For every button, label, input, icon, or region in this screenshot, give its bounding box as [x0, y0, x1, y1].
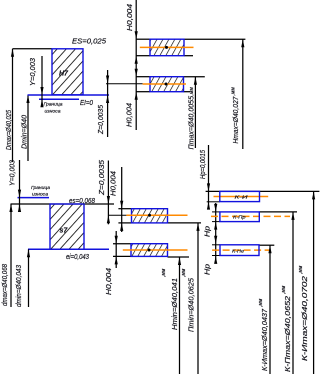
svg-text:Нр=0,0015: Нр=0,0015 — [200, 150, 207, 179]
svg-text:,мм: ,мм — [231, 87, 237, 96]
svg-text:Пmin=Ø40,0625: Пmin=Ø40,0625 — [189, 278, 196, 332]
svg-text:Нр: Нр — [205, 264, 212, 275]
svg-text:Н0,004: Н0,004 — [111, 171, 118, 196]
svg-text:Y=0,003: Y=0,003 — [30, 58, 37, 86]
svg-text:Пmax=Ø40,0055: Пmax=Ø40,0055 — [189, 96, 196, 150]
svg-text:Граница: Граница — [31, 185, 50, 191]
svg-text:К-Не: К-Не — [232, 249, 244, 255]
svg-text:Н0,004: Н0,004 — [106, 268, 113, 295]
svg-text:К-Иmax=Ø40,0702: К-Иmax=Ø40,0702 — [302, 276, 309, 361]
svg-text:Нmin=Ø40,041: Нmin=Ø40,041 — [172, 278, 179, 330]
svg-text:Dmin=Ø40: Dmin=Ø40 — [22, 115, 29, 149]
svg-text:Нmax=Ø40,027: Нmax=Ø40,027 — [233, 96, 240, 144]
svg-text:К-И: К-И — [235, 194, 249, 200]
svg-text:Н7: Н7 — [59, 71, 69, 78]
svg-text:dmax=Ø40,068: dmax=Ø40,068 — [2, 264, 9, 306]
svg-text:s7: s7 — [60, 228, 69, 235]
svg-text:ES=0,025: ES=0,025 — [72, 39, 106, 46]
svg-text:К-Пр: К-Пр — [233, 215, 246, 221]
svg-text:,мм: ,мм — [298, 265, 304, 274]
svg-text:Z=0,0035: Z=0,0035 — [98, 105, 105, 135]
svg-text:износа: износа — [45, 110, 61, 115]
svg-text:EI=0: EI=0 — [80, 100, 93, 107]
svg-text:,мм: ,мм — [258, 298, 264, 307]
svg-text:Н0,004: Н0,004 — [127, 103, 134, 127]
svg-text:К-Иmax=Ø40,0437: К-Иmax=Ø40,0437 — [262, 308, 269, 371]
svg-text:К-Пmax=Ø40,0652: К-Пmax=Ø40,0652 — [285, 296, 292, 372]
svg-text:Граница: Граница — [44, 101, 63, 107]
svg-text:,мм: ,мм — [181, 268, 187, 277]
svg-text:,мм: ,мм — [161, 268, 167, 277]
svg-text:износа: износа — [32, 193, 48, 198]
svg-text:dmin=Ø40,043: dmin=Ø40,043 — [16, 265, 23, 307]
svg-text:Н0,004: Н0,004 — [127, 4, 134, 31]
svg-text:Dmax=Ø40,025: Dmax=Ø40,025 — [6, 110, 13, 150]
svg-text:Z=0,0035: Z=0,0035 — [99, 160, 106, 196]
svg-text:,мм: ,мм — [281, 285, 287, 294]
svg-text:,мм: ,мм — [189, 87, 195, 96]
svg-text:Нр: Нр — [205, 226, 212, 237]
svg-text:es=0,068: es=0,068 — [69, 198, 95, 205]
svg-text:Y=0,003: Y=0,003 — [10, 160, 17, 186]
svg-text:ei=0,043: ei=0,043 — [66, 254, 89, 261]
